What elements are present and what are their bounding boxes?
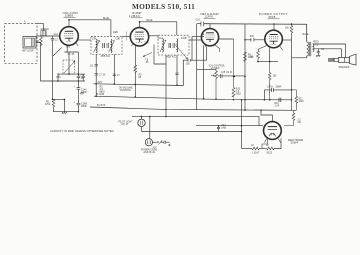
- coupling capacitor C16 above V3: [197, 22, 210, 61]
- svg-text:.05: .05: [145, 62, 149, 64]
- svg-text:2W: 2W: [298, 122, 302, 124]
- coupling coil L1: [41, 31, 46, 36]
- capacitor C13: [187, 59, 193, 62]
- svg-text:C1A: C1A: [54, 33, 59, 36]
- resistor R13b cathode: [268, 62, 271, 100]
- T2 secondary coil: [110, 39, 113, 53]
- wire V4 screen stub: [282, 39, 291, 41]
- svg-text:C9A: C9A: [92, 37, 97, 40]
- electrolytic C14A: [77, 81, 81, 89]
- B+ vertical wire: [291, 35, 293, 111]
- switch on plug: [153, 141, 158, 143]
- svg-text:40MF: 40MF: [81, 92, 87, 94]
- tube V3 12AT6: [201, 29, 218, 46]
- wire T2 terminal down: [113, 54, 115, 84]
- wire V2 screen down: [154, 45, 166, 110]
- electrolytic C14B: [77, 89, 81, 112]
- svg-text:50C5: 50C5: [267, 153, 273, 155]
- capacitor C16b coupling to V4 grid: [219, 38, 265, 42]
- output transformer T4: [307, 42, 309, 56]
- resistor R10: [232, 39, 235, 97]
- svg-text:B- BUS: B- BUS: [97, 94, 105, 96]
- svg-text:150: 150: [285, 28, 290, 30]
- capacitor C10: [175, 73, 178, 74]
- T2 primary coil: [95, 39, 98, 53]
- resistor R17 surge: [284, 111, 295, 126]
- svg-text:C9B: C9B: [116, 38, 121, 40]
- wire V2 plate to T3: [140, 22, 177, 35]
- grid rail V4: [244, 24, 246, 110]
- T2 slug arrow: [94, 41, 100, 53]
- svg-text:BLUE: BLUE: [147, 20, 153, 22]
- capacitor C6 on AVC feed: [94, 65, 98, 67]
- svg-text:C17A: C17A: [267, 85, 273, 88]
- svg-text:1.2K: 1.2K: [275, 106, 280, 108]
- svg-text:BLUE: BLUE: [103, 18, 109, 20]
- volume control pot R8: [197, 70, 216, 71]
- svg-text:470K: 470K: [248, 57, 254, 59]
- svg-text:LINE: LINE: [221, 128, 227, 130]
- svg-text:C7: C7: [117, 75, 121, 77]
- tube V4 50C5: [265, 30, 283, 48]
- resistor R6: [52, 99, 55, 107]
- chassis mark: [153, 146, 157, 148]
- T3 slug arrow: [160, 40, 166, 52]
- capacitor C17A filter: [264, 88, 291, 92]
- svg-text:455 KC: 455 KC: [101, 54, 111, 58]
- svg-text:C5 .05: C5 .05: [68, 54, 75, 56]
- tube V1 12BE6: [60, 27, 79, 46]
- svg-text:150: 150: [273, 76, 278, 78]
- wire V1 cathode down: [64, 45, 78, 74]
- svg-text:1000: 1000: [299, 101, 305, 103]
- dashed AVC line into V2: [126, 32, 128, 41]
- svg-text:35W4: 35W4: [291, 141, 299, 145]
- speaker cone: [349, 54, 356, 65]
- ground symbol main: [62, 112, 67, 114]
- wire AVC corner: [183, 60, 186, 85]
- svg-text:T4: T4: [315, 45, 318, 47]
- line F power: [142, 131, 242, 133]
- svg-text:A: A: [24, 21, 26, 24]
- svg-text:.02 M: .02 M: [226, 72, 232, 74]
- grid cap line long vertical: [52, 42, 54, 99]
- svg-text:12AT6: 12AT6: [205, 15, 214, 19]
- T2 slug arrow 2: [109, 41, 115, 53]
- T3 capacitor: [169, 43, 171, 48]
- svg-text:30MF: 30MF: [276, 86, 282, 88]
- capacitor C4: [77, 74, 80, 81]
- wire V3 cathode down: [203, 45, 205, 98]
- svg-text:C2: C2: [55, 40, 59, 42]
- diagonal grid wire: [53, 48, 62, 57]
- svg-text:33: 33: [251, 145, 254, 147]
- svg-text:NO 47: NO 47: [122, 124, 129, 126]
- osc rail mid: [58, 73, 85, 75]
- vertical B- to AC common: [241, 100, 243, 149]
- svg-text:1R5: 1R5: [66, 47, 71, 49]
- resistor R9: [244, 52, 247, 62]
- speaker magnet frame: [338, 58, 349, 63]
- svg-text:AVC: AVC: [98, 81, 103, 84]
- V5 pins: [265, 139, 281, 143]
- top bus wire to V4 and T4: [204, 24, 307, 42]
- svg-text:C11A: C11A: [158, 37, 164, 40]
- wire V1 plate to T2 top: [69, 20, 111, 37]
- line B- bus: [94, 96, 292, 100]
- wire T4 secondary to speaker: [313, 43, 345, 57]
- svg-text:1/2 MEG: 1/2 MEG: [211, 68, 220, 70]
- wire V2 cathode down: [134, 46, 137, 97]
- svg-text:455 KC: 455 KC: [166, 55, 176, 59]
- capacitor C2: [51, 36, 54, 42]
- V3 pins: [205, 45, 220, 52]
- T2 capacitor 2: [107, 43, 109, 48]
- svg-text:GREEN: GREEN: [41, 29, 50, 31]
- V2 pins: [132, 44, 134, 47]
- capacitor C20: [317, 49, 320, 56]
- capacitor C7: [113, 74, 116, 75]
- wire T3 terminal down: [176, 55, 178, 85]
- wire rect cathode to bus: [263, 90, 265, 100]
- line D filament: [132, 116, 259, 125]
- V1 pins: [76, 43, 79, 47]
- speaker lead block: [329, 59, 335, 62]
- svg-text:CAPACITY IN MMF UNLESS OTHERWI: CAPACITY IN MMF UNLESS OTHERWISE NOTED: [50, 129, 114, 133]
- speaker voice coil: [334, 58, 338, 61]
- svg-text:68: 68: [139, 77, 142, 79]
- wire grid line V1: [36, 35, 60, 37]
- svg-text:C7 .01: C7 .01: [99, 75, 106, 77]
- svg-text:RED: RED: [314, 41, 319, 43]
- svg-text:AND PLUG: AND PLUG: [144, 151, 156, 154]
- svg-text:CONTROL: CONTROL: [120, 90, 132, 92]
- resistor R15: [252, 147, 260, 150]
- svg-text:OSC: OSC: [56, 77, 61, 79]
- svg-text:LIGHT: LIGHT: [253, 153, 260, 155]
- svg-text:MODELS 510, 511: MODELS 510, 511: [132, 2, 195, 11]
- wire T2 secondary bottom down: [95, 54, 97, 96]
- tube pin stubs: [76, 43, 283, 143]
- AVC bus wire: [94, 84, 184, 86]
- svg-text:MEG: MEG: [236, 94, 241, 96]
- T3 capacitor 2: [173, 43, 175, 48]
- svg-text:MEG: MEG: [100, 92, 105, 94]
- screen resistor R14: [290, 24, 293, 34]
- svg-text:50C5: 50C5: [269, 15, 276, 19]
- pilot lamp: [138, 119, 145, 126]
- wire antenna top to coupling coil: [37, 24, 44, 31]
- wire V4 cathode junction: [258, 48, 278, 62]
- T1 slug arrow: [64, 61, 75, 73]
- tube V5 35W4: [264, 122, 282, 140]
- svg-text:+: +: [269, 92, 271, 94]
- svg-text:+: +: [74, 86, 76, 88]
- wire V5 cathode to B+: [261, 110, 272, 122]
- T3 primary coil: [162, 39, 165, 53]
- wire V5 bottom: [262, 139, 268, 149]
- svg-text:33: 33: [266, 145, 269, 147]
- svg-text:.005: .005: [249, 36, 254, 38]
- capacitor C17B on B-: [279, 98, 281, 102]
- svg-text:+: +: [74, 102, 76, 104]
- svg-text:C16: C16: [196, 20, 201, 22]
- wire V4 plate: [273, 24, 275, 30]
- svg-text:12BE6: 12BE6: [65, 14, 74, 18]
- line B+ bus: [90, 107, 296, 110]
- svg-text:C10: C10: [145, 43, 150, 45]
- ground rail: [54, 107, 79, 112]
- osc coil T1 dashed box: [63, 60, 75, 74]
- svg-text:ANT LOOP: ANT LOOP: [22, 50, 34, 53]
- IF transformer T2 dashed box: [91, 36, 122, 54]
- ground speaker cap: [316, 55, 320, 57]
- cathode resistor R13 V4: [257, 46, 267, 62]
- V4 pins: [280, 47, 283, 51]
- svg-text:C6: C6: [90, 66, 94, 68]
- svg-text:B+ BUS: B+ BUS: [97, 105, 106, 107]
- power plug: [145, 139, 152, 146]
- IF transformer T3 dashed box: [158, 35, 189, 55]
- svg-text:250: 250: [186, 63, 191, 65]
- osc rail bottom / loop return: [36, 43, 85, 82]
- wire T3 to V3: [189, 39, 202, 41]
- capacitor C7 on AVC feed: [94, 74, 98, 76]
- capacitor C5: [82, 74, 85, 81]
- resistor R16: [267, 147, 275, 150]
- diode load wire V3: [192, 36, 207, 110]
- antenna loop inner rect: [23, 37, 36, 49]
- ground mark osc: [80, 93, 83, 95]
- resistor R12 parallel: [292, 90, 298, 110]
- misc small labels: [54, 20, 325, 155]
- plug vertical: [149, 116, 151, 138]
- svg-text:12BA6: 12BA6: [129, 14, 140, 18]
- wire V2 to T3 input: [149, 35, 158, 37]
- T3 secondary coil: [176, 39, 179, 53]
- svg-text:SPEAKER: SPEAKER: [339, 66, 350, 69]
- capacitor C15: [218, 74, 246, 78]
- grid return arrow: [143, 53, 152, 57]
- svg-text:470K: 470K: [45, 104, 51, 106]
- capacitor line C21: [162, 141, 169, 144]
- line C to D vertical: [165, 109, 167, 116]
- wire T2 to V2: [122, 36, 130, 38]
- svg-text:20MF: 20MF: [81, 106, 87, 108]
- wire V1 to T2 secondary: [78, 39, 91, 41]
- filament string: [242, 148, 252, 150]
- svg-text:C11B: C11B: [181, 38, 187, 40]
- tube V2 12BA6: [130, 28, 148, 46]
- line E V5 plate: [196, 125, 263, 127]
- resistor R1: [40, 36, 43, 46]
- antenna loop dashed box: [5, 24, 38, 64]
- svg-text:GRN: GRN: [113, 32, 118, 34]
- T2 capacitor: [103, 43, 105, 48]
- svg-text:BLUE: BLUE: [303, 34, 309, 36]
- capacitor C19: [217, 126, 220, 132]
- T3 slug arrow 2: [175, 45, 188, 60]
